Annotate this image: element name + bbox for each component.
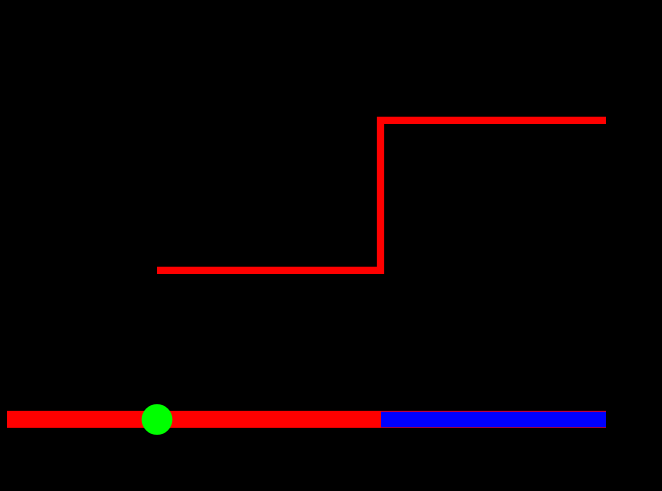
step function curve (red) xyxy=(157,120,606,270)
number line blue segment xyxy=(381,412,606,428)
point marker (green dot) xyxy=(142,404,173,435)
number line red segment xyxy=(7,411,606,428)
